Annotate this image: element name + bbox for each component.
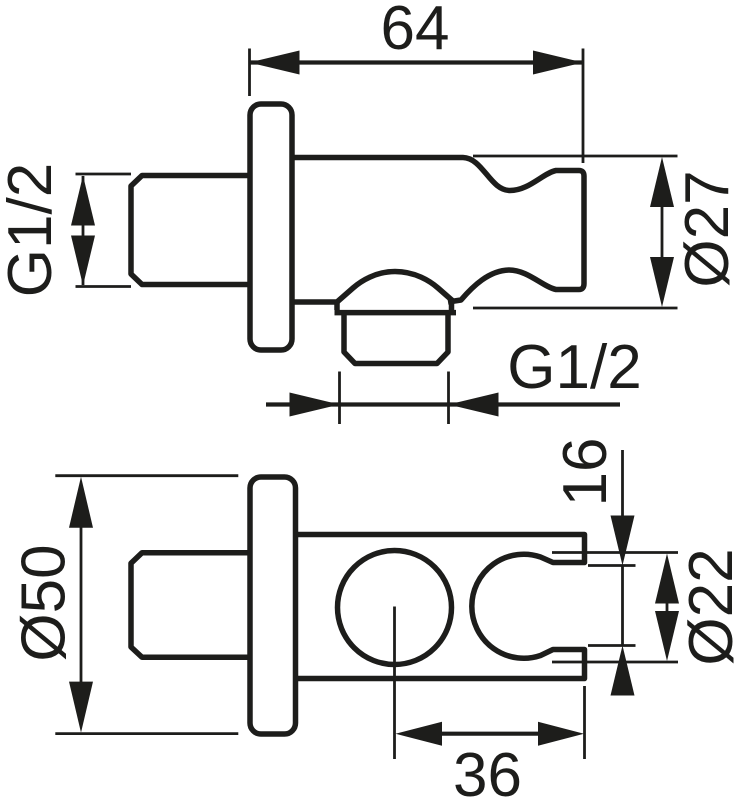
dimension Ø22: dimension line	[666, 602, 669, 613]
dimension 16: down arrowhead	[611, 516, 635, 566]
left inlet pipe G1/2 (front view)	[131, 553, 250, 658]
svg-text:G1/2: G1/2	[0, 163, 65, 297]
dimension 16: dimension line	[621, 450, 624, 517]
bottom outlet dome (side view)	[293, 272, 454, 303]
svg-text:G1/2: G1/2	[507, 333, 641, 402]
dimension 16: lower slot extension line	[588, 644, 636, 647]
wall flange (front view)	[250, 477, 296, 734]
dimension G1/2 bottom: right extension line	[447, 372, 450, 425]
dimension G1/2 bottom: dimension line with leaders	[266, 402, 620, 406]
dimension G1/2 left: down arrowhead	[71, 236, 95, 286]
dimension Ø50: bottom extension line	[55, 732, 238, 735]
dimension 16: up arrowhead	[611, 646, 635, 696]
dimension 64: right arrowhead	[533, 51, 583, 75]
dimension 36: right arrowhead	[538, 722, 584, 746]
dimension Ø22: up arrowhead	[655, 554, 679, 604]
dimension Ø27: up arrowhead	[650, 157, 674, 207]
dimension Ø50: dimension line	[80, 527, 83, 682]
body with shower-holder profile (side view)	[293, 158, 584, 303]
dimension 36: left arrowhead	[396, 722, 443, 746]
dimension G1/2 bottom: left-pointing arrowhead	[449, 393, 499, 417]
dimension 16: top long extension line (Ø22 upper)	[552, 551, 678, 554]
dimension 64: dimension line	[250, 60, 584, 64]
dimension G1/2 bottom: left extension line	[338, 372, 341, 425]
svg-text:36: 36	[453, 741, 522, 799]
left inlet pipe G1/2 (side view)	[131, 176, 250, 285]
dimension Ø50: down arrowhead	[69, 682, 93, 733]
dimension Ø27: dimension line	[661, 206, 664, 258]
dimension Ø27: top extension line	[473, 155, 678, 158]
outlet collar (side view)	[335, 302, 457, 313]
svg-text:Ø50: Ø50	[10, 544, 79, 661]
outlet nut G1/2 (side view)	[344, 313, 448, 364]
dimension 16: mid line between slots	[621, 566, 624, 646]
dimension G1/2 left: bottom extension line	[76, 285, 132, 288]
svg-text:64: 64	[381, 0, 450, 63]
dimension Ø50: up arrowhead	[69, 477, 93, 528]
dimension 36: dimension line	[441, 732, 539, 736]
dimension G1/2 bottom: right-pointing arrowhead	[290, 393, 340, 417]
dimension Ø27: bottom extension line	[473, 307, 678, 310]
svg-text:Ø27: Ø27	[673, 170, 741, 287]
outlet nut circle (front view)	[338, 551, 452, 665]
dimension Ø50: top extension line	[55, 474, 238, 477]
dimension G1/2 left: top extension line	[76, 173, 132, 176]
svg-text:16: 16	[551, 438, 620, 507]
dimension Ø22: bottom long extension line	[552, 661, 678, 664]
dimension 64: left arrowhead	[250, 51, 300, 75]
dimension G1/2 left: up arrowhead	[71, 176, 95, 226]
holder body with C-fork (front view)	[296, 535, 585, 679]
svg-text:Ø22: Ø22	[677, 548, 741, 665]
dimension G1/2 left: dimension line	[82, 176, 85, 285]
dimension 16: upper slot extension line	[588, 564, 636, 567]
nut centreline (36 left extension)	[393, 607, 396, 760]
dimension Ø27: down arrowhead	[650, 257, 674, 307]
dimension Ø22: down arrowhead	[655, 611, 679, 661]
dimension 36: right extension line	[583, 686, 586, 759]
wall flange (side view)	[250, 104, 292, 350]
dimension 64: left extension line	[248, 49, 251, 97]
dimension 64: right extension line	[582, 49, 585, 164]
